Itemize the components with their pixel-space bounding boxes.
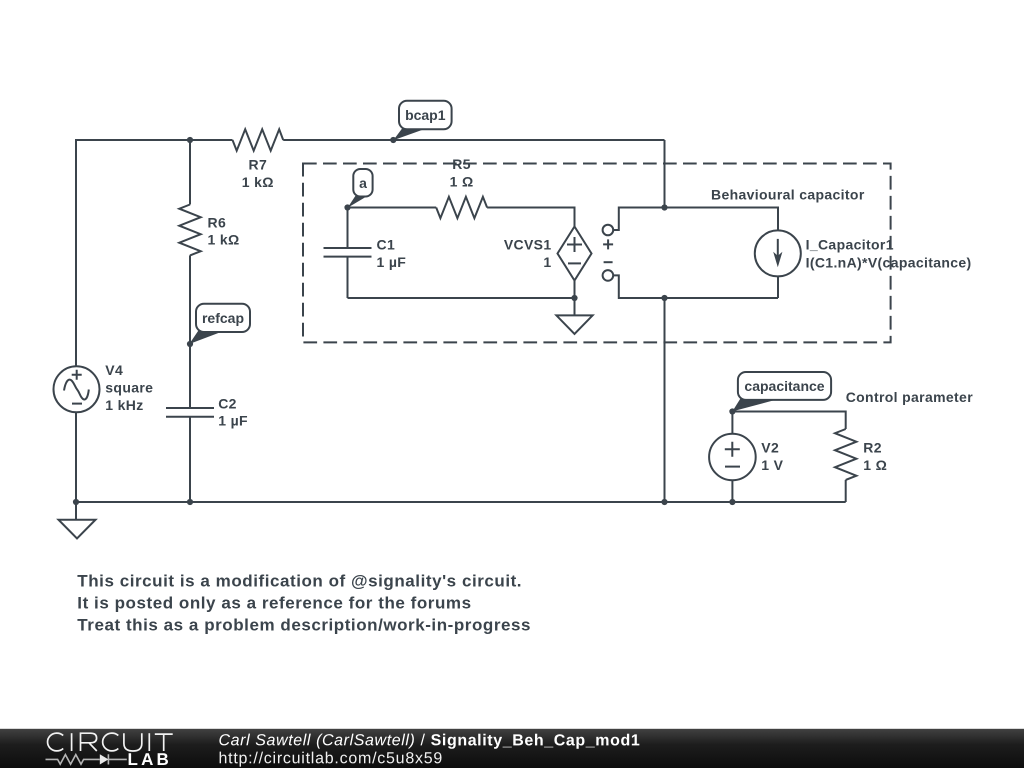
wire left vertical upper [75,139,77,367]
junction node a [344,204,350,210]
svg-text:1 µF: 1 µF [218,413,248,429]
svg-text:Treat this as a problem descri: Treat this as a problem description/work… [77,615,531,634]
terminal circle minus [603,270,614,281]
svg-text:R7: R7 [248,157,267,173]
wire C1 bottom to VCVS1 bottom [348,297,575,299]
wire left vertical lower [75,412,77,502]
wire R2 bottom lead [845,480,847,502]
svg-text:a: a [359,175,367,191]
svg-text:I(C1.nA)*V(capacitance): I(C1.nA)*V(capacitance) [806,254,972,270]
vcvs VCVS1 plus sign [567,237,582,252]
svg-text:R6: R6 [208,214,227,230]
svg-text:Behavioural capacitor: Behavioural capacitor [711,186,865,202]
current source I_Capacitor1 circle [755,230,801,276]
behavioural capacitor top rail wire [613,208,778,231]
wire VCVS1 bottom lead [574,281,576,316]
resistor R5 [436,197,487,218]
svg-text:1 kΩ: 1 kΩ [242,174,274,190]
wire C1 bottom lead [347,257,349,298]
source V4 sine wave [64,380,89,400]
ground below VCVS1 [556,315,592,334]
flag a [348,169,373,208]
wire C1 top lead [347,208,349,249]
svg-text:bcap1: bcap1 [405,107,446,123]
source V2 minus sign [725,466,740,468]
junction node C2 bottom [187,499,193,505]
wire bcap1 vertical upper [664,140,666,208]
svg-text:refcap: refcap [202,310,244,326]
junction node at R6 top [187,137,193,143]
flag refcap [189,304,250,344]
dashed subcircuit box [303,164,891,343]
svg-text:V4: V4 [105,362,123,378]
svg-text:It is posted only as a referen: It is posted only as a reference for the… [77,593,471,612]
logo CIRCUIT letters [48,733,173,751]
svg-text:1 Ω: 1 Ω [863,457,887,473]
junction node behavioural top rail [661,204,667,210]
wire node a to R5 [348,207,437,209]
svg-text:VCVS1: VCVS1 [504,236,552,252]
svg-text:square: square [105,380,153,396]
svg-text:V2: V2 [761,439,779,455]
terminal minus sign [604,261,613,263]
junction node VCVS1 bottom [571,295,577,301]
svg-text:R5: R5 [452,156,471,172]
svg-text:http://circuitlab.com/c5u8x59: http://circuitlab.com/c5u8x59 [218,750,443,767]
svg-text:capacitance: capacitance [744,378,824,394]
resistor R7 [233,129,284,150]
current source I_Capacitor1 arrowhead [773,252,782,267]
wire capacitance node to V2 top [731,412,733,434]
junction node bcap1 [390,137,396,143]
svg-text:LAB: LAB [127,750,172,768]
wire V2 bottom lead [731,480,733,502]
resistor R6 [179,205,200,256]
vcvs VCVS1 minus sign [568,262,581,264]
terminal circle plus [603,225,614,236]
behavioural capacitor bottom rail wire [613,275,778,298]
svg-text:Control parameter: Control parameter [846,389,974,405]
logo resistor-diode drawing [46,754,127,764]
svg-text:1 µF: 1 µF [377,254,407,270]
ground bottom left [59,520,96,539]
junction node refcap [187,341,193,347]
source V4 circle [54,366,100,412]
wire ground stub bottom left [75,502,77,520]
wire capacitance node to R2 top [732,412,845,430]
capacitor C2 [166,408,214,417]
source V2 circle [709,434,756,481]
source V4 plus sign [72,370,82,380]
wire top horizontal left segment [76,139,233,141]
current source I_Capacitor1 arrow [777,239,779,256]
resistor R2 [835,429,856,480]
vcvs U1 VCVS1 diamond [558,227,592,281]
junction node bottom left [73,499,79,505]
wire bcap1 vertical lower [664,298,666,502]
source V4 minus sign [72,403,82,405]
junction node capacitance [729,408,735,414]
wire bottom horizontal [76,501,846,503]
svg-text:1: 1 [543,254,551,270]
svg-text:This circuit is a modification: This circuit is a modification of @signa… [77,571,522,590]
svg-text:R2: R2 [863,439,882,455]
source V2 plus sign [725,442,740,457]
svg-text:C1: C1 [377,236,396,252]
wire R6 top lead [189,140,191,205]
wire R6 to C2 [189,255,191,408]
junction node bcap vertical bottom [661,499,667,505]
svg-text:1 kΩ: 1 kΩ [208,232,240,248]
terminal plus sign [603,239,613,249]
junction node behavioural bottom rail [661,295,667,301]
svg-text:C2: C2 [218,396,237,412]
wire C2 bottom lead [189,417,191,502]
flag capacitance [732,372,831,411]
svg-text:I_Capacitor1: I_Capacitor1 [806,236,894,252]
svg-text:1 Ω: 1 Ω [450,174,474,190]
junction node V2 bottom [729,499,735,505]
svg-text:1 V: 1 V [761,457,783,473]
svg-text:Carl Sawtell (CarlSawtell) / S: Carl Sawtell (CarlSawtell) / Signality_B… [218,732,640,749]
svg-text:1 kHz: 1 kHz [105,397,143,413]
capacitor C1 [324,248,372,257]
flag bcap1 [393,101,451,141]
wire top horizontal right segment [283,139,664,141]
wire R5 to VCVS1 top [487,208,574,227]
